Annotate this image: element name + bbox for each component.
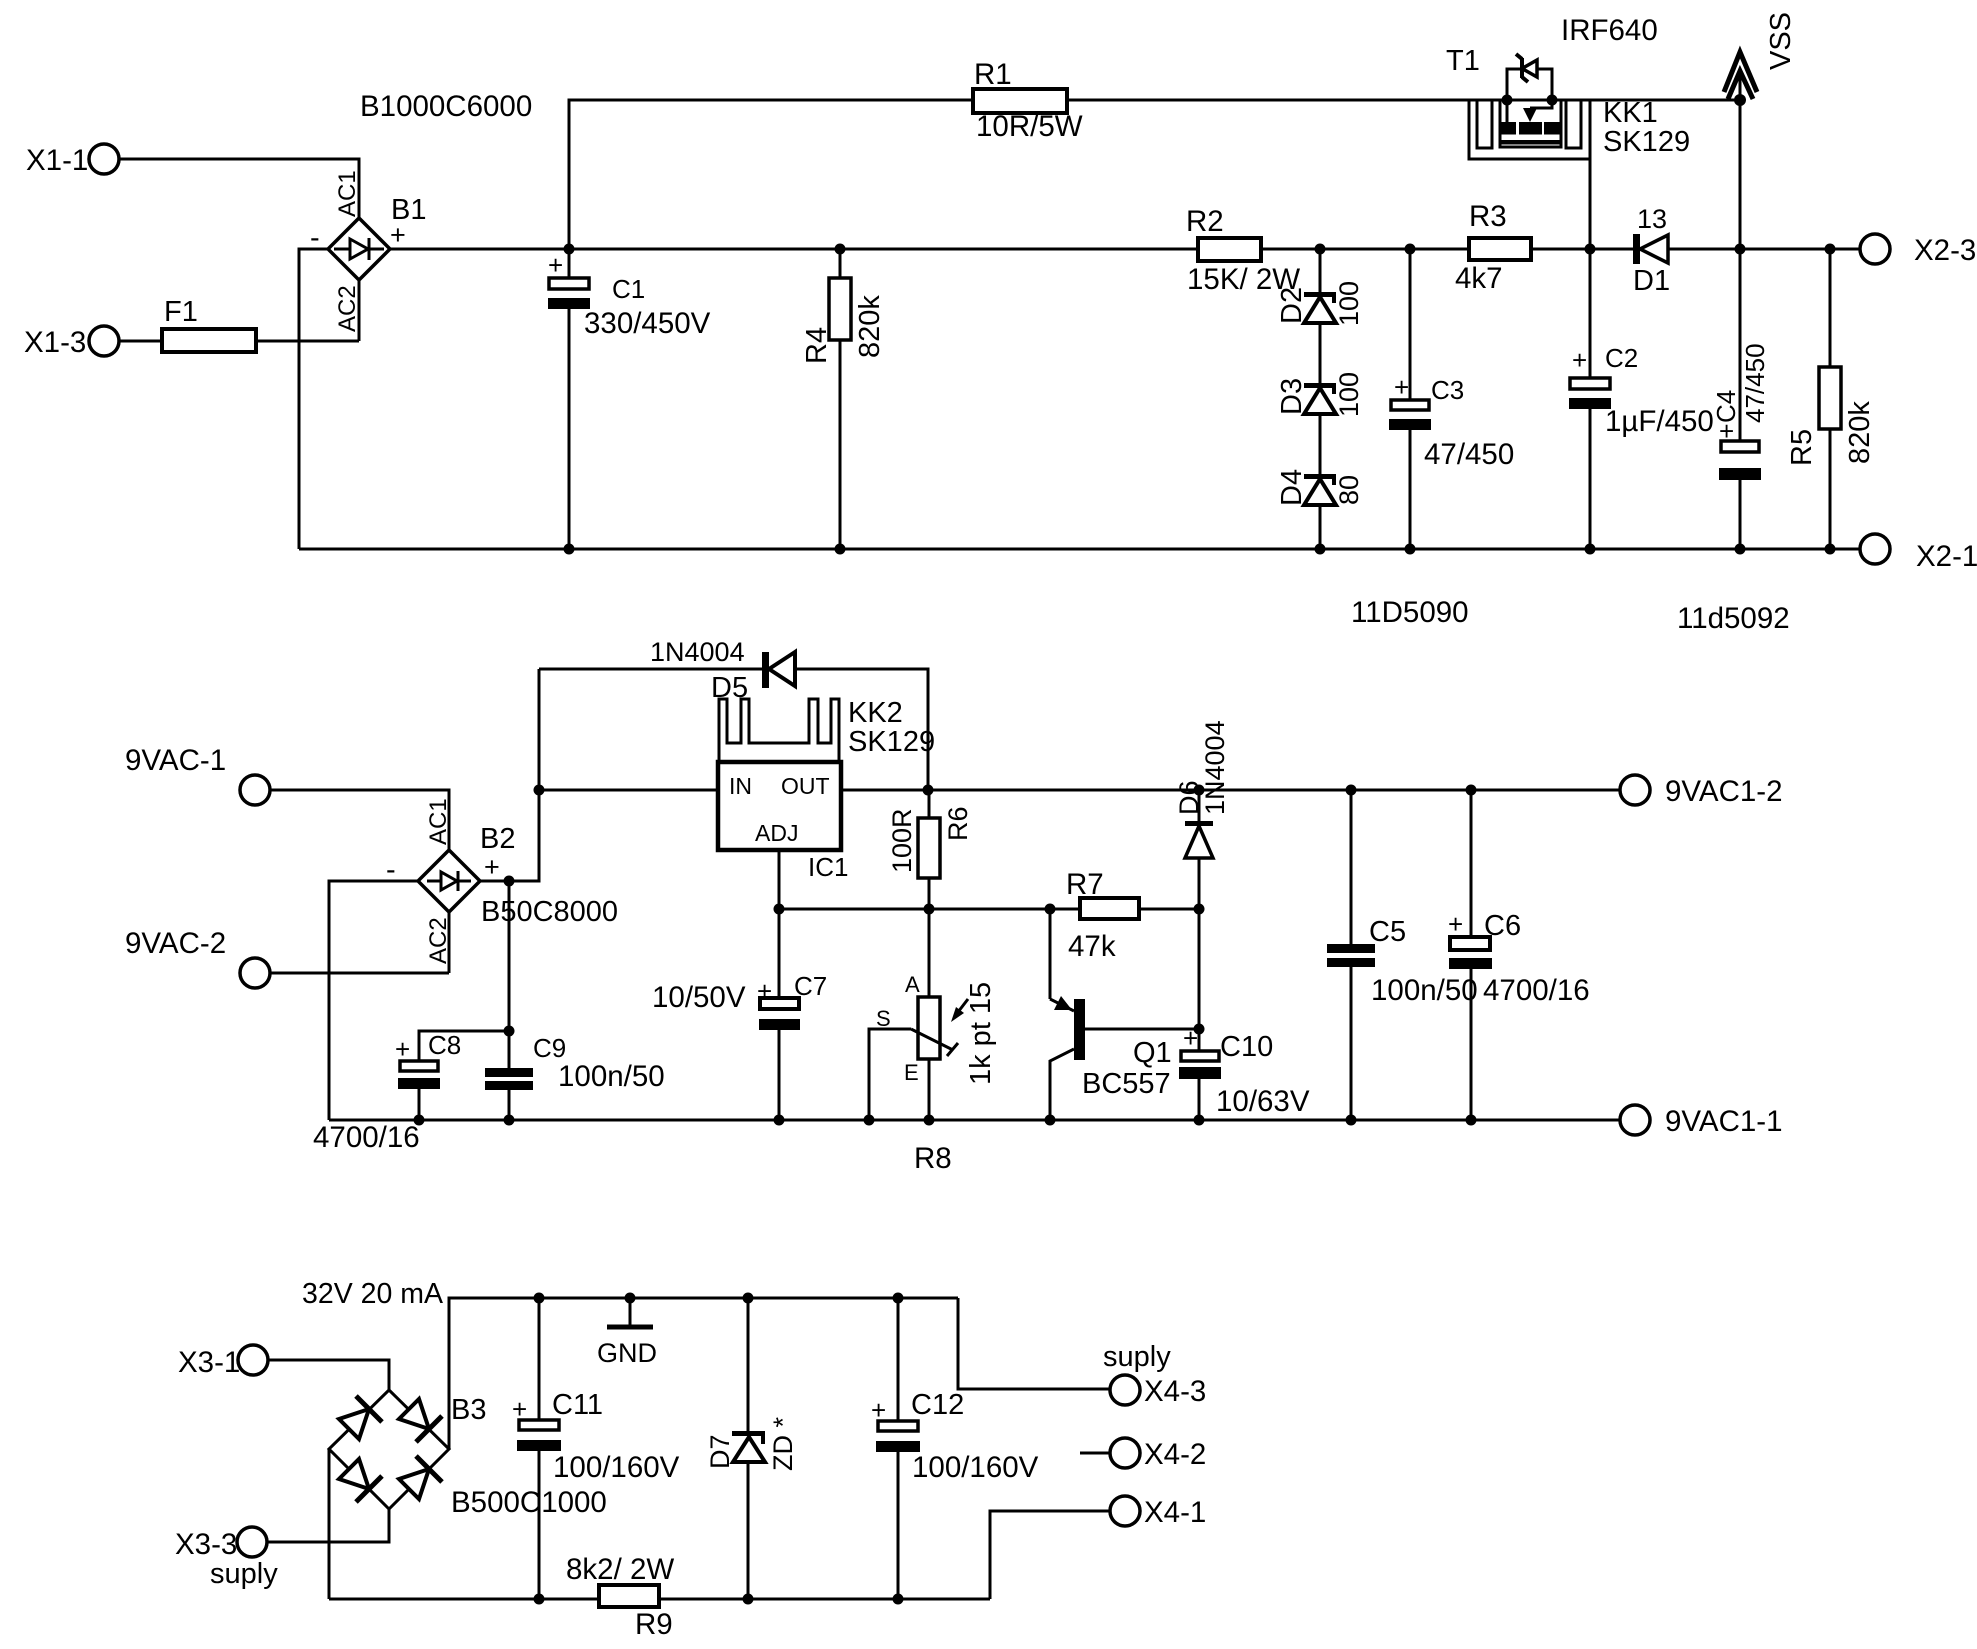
wire B2 plus down to C8 C9 xyxy=(508,881,511,1068)
terminal X1-3 xyxy=(24,326,119,359)
terminal X1-1 xyxy=(26,144,119,177)
svg-text:B3: B3 xyxy=(451,1394,486,1426)
capacitor C12 xyxy=(871,1298,1039,1605)
svg-text:X1-1: X1-1 xyxy=(26,144,88,177)
wire top rail xyxy=(569,100,1741,249)
wire bridge plus up to D5 rail xyxy=(480,669,539,881)
transistor T1 IRF640 xyxy=(1446,14,1658,145)
terminal X4-2 xyxy=(1080,1438,1206,1471)
wire X3-1 to bridge B3 xyxy=(268,1360,389,1390)
svg-text:AC2: AC2 xyxy=(334,285,361,332)
wire branch to C8 xyxy=(419,1031,509,1061)
svg-text:+: + xyxy=(548,250,563,280)
svg-text:11d5092: 11d5092 xyxy=(1677,602,1790,635)
capacitor C3 xyxy=(1389,249,1514,555)
resistor R2 xyxy=(1186,205,1300,296)
svg-text:C8: C8 xyxy=(428,1030,461,1060)
node junction C1 top xyxy=(564,244,575,255)
resistor R3 xyxy=(1455,200,1531,295)
svg-text:C12: C12 xyxy=(911,1389,964,1421)
svg-text:SK129: SK129 xyxy=(1603,126,1690,158)
capacitor C2 xyxy=(1569,249,1714,555)
transistor Q1 BC557 xyxy=(1045,909,1205,1126)
node junction B2 plus xyxy=(504,876,515,887)
wire 9VAC-2 to bridge B2 AC2 xyxy=(270,912,449,973)
zener diode D7 xyxy=(705,1298,798,1605)
svg-text:100n/50: 100n/50 xyxy=(1371,974,1478,1007)
svg-text:ZD *: ZD * xyxy=(768,1417,798,1471)
wire B3 plus up to top rail xyxy=(449,1298,958,1449)
node junction ADJ xyxy=(774,904,785,915)
svg-text:820k: 820k xyxy=(1844,401,1876,464)
svg-text:9VAC1-2: 9VAC1-2 xyxy=(1665,775,1783,808)
svg-text:330/450V: 330/450V xyxy=(584,307,711,340)
wire bottom bus xyxy=(299,548,1860,551)
wire VSS line down through bus to C4 xyxy=(1739,100,1742,441)
terminal X4-1 xyxy=(1110,1496,1206,1529)
regulator IC1 xyxy=(718,762,848,882)
svg-text:AC2: AC2 xyxy=(425,917,452,964)
terminal 9VAC-1 xyxy=(125,744,270,805)
svg-text:KK1: KK1 xyxy=(1603,97,1658,129)
capacitor C8 xyxy=(313,1030,461,1154)
capacitor C1 xyxy=(548,249,711,549)
svg-text:100R: 100R xyxy=(887,808,917,873)
svg-text:1µF/450: 1µF/450 xyxy=(1605,405,1714,438)
svg-text:11D5090: 11D5090 xyxy=(1351,596,1469,629)
svg-text:10/50V: 10/50V xyxy=(652,981,746,1014)
resistor R1 xyxy=(973,58,1083,143)
node junction C11 top xyxy=(534,1293,545,1304)
wire fuse to bridge AC2 xyxy=(256,280,359,341)
svg-text:+: + xyxy=(1183,1023,1198,1053)
svg-text:9VAC-2: 9VAC-2 xyxy=(125,927,226,960)
svg-text:10/63V: 10/63V xyxy=(1216,1085,1310,1118)
svg-text:AC1: AC1 xyxy=(425,798,452,845)
svg-text:D3: D3 xyxy=(1276,378,1308,415)
svg-text:Q1: Q1 xyxy=(1133,1037,1172,1069)
svg-text:GND: GND xyxy=(597,1338,657,1368)
bridge rectifier B3 xyxy=(329,1390,607,1519)
node junction C12 top xyxy=(893,1293,904,1304)
svg-text:820k: 820k xyxy=(854,295,886,358)
zener diode D3 xyxy=(1276,323,1364,417)
svg-text:+: + xyxy=(484,852,500,882)
svg-text:C2: C2 xyxy=(1605,343,1638,373)
svg-text:suply: suply xyxy=(210,1558,278,1590)
svg-text:47/450: 47/450 xyxy=(1424,438,1514,471)
heatsink KK1 xyxy=(1469,97,1690,159)
node junction D4 bottom xyxy=(1315,544,1326,555)
capacitor C7 xyxy=(652,909,827,1126)
svg-text:100/160V: 100/160V xyxy=(912,1451,1039,1484)
wire bridge minus down to bottom rail xyxy=(329,881,418,1120)
svg-text:BC557: BC557 xyxy=(1082,1068,1171,1100)
svg-text:47/450: 47/450 xyxy=(1740,343,1770,423)
terminal X3-3 xyxy=(175,1527,278,1590)
svg-text:R2: R2 xyxy=(1186,205,1224,238)
zener diode D2 xyxy=(1276,249,1364,326)
fuse F1 xyxy=(162,296,256,352)
ground GND xyxy=(597,1293,657,1369)
wire X1-1 to bridge AC1 xyxy=(119,159,359,218)
bridge rectifier B1 xyxy=(310,90,532,332)
svg-text:+: + xyxy=(1572,345,1587,375)
wire IC1 ADJ down xyxy=(778,850,781,909)
svg-text:+: + xyxy=(390,220,406,250)
resistor R5 xyxy=(1786,249,1876,555)
svg-text:C9: C9 xyxy=(533,1033,566,1063)
svg-text:9VAC1-1: 9VAC1-1 xyxy=(1665,1105,1783,1138)
capacitor C5 xyxy=(1327,785,1478,1126)
svg-text:E: E xyxy=(904,1060,919,1085)
svg-text:47k: 47k xyxy=(1068,930,1116,963)
svg-text:8k2/ 2W: 8k2/ 2W xyxy=(566,1553,674,1586)
node junction C3 top xyxy=(1405,244,1416,255)
wire OUT rail to terminal xyxy=(841,789,1620,792)
terminal 9VAC1-2 xyxy=(1620,775,1783,808)
potentiometer R8 xyxy=(864,909,998,1175)
wire bridge plus along main bus xyxy=(390,248,1198,251)
svg-text:1N4004: 1N4004 xyxy=(1200,720,1230,815)
wire bottom rail middle xyxy=(329,1119,1620,1122)
svg-text:AC1: AC1 xyxy=(334,170,361,217)
svg-text:X2-3: X2-3 xyxy=(1914,234,1976,267)
wire B3 minus down to bottom rail xyxy=(328,1449,331,1599)
terminal 9VAC-2 xyxy=(125,927,270,988)
node junction D7 top xyxy=(743,1293,754,1304)
diode D1 xyxy=(1633,204,1860,297)
svg-text:1k pt 15: 1k pt 15 xyxy=(965,982,997,1085)
wire bottom rail xyxy=(329,1598,990,1601)
svg-text:4700/16: 4700/16 xyxy=(1483,974,1590,1007)
svg-text:R9: R9 xyxy=(635,1608,673,1641)
svg-text:+: + xyxy=(1448,909,1463,939)
resistor R9 xyxy=(566,1553,674,1641)
resistor R7 xyxy=(1066,868,1205,963)
svg-text:IRF640: IRF640 xyxy=(1561,14,1658,47)
node junction D2 top xyxy=(1315,244,1326,255)
capacitor C6 xyxy=(1448,785,1590,1126)
resistor R4 xyxy=(801,244,886,555)
diode D6 1N4004 xyxy=(1174,720,1230,1051)
svg-text:SK129: SK129 xyxy=(848,726,935,758)
svg-text:X1-3: X1-3 xyxy=(24,326,86,359)
wire 9VAC-1 to bridge B2 AC1 xyxy=(270,790,449,850)
bridge rectifier B2 xyxy=(386,798,618,964)
svg-text:C1: C1 xyxy=(612,274,645,304)
svg-text:R6: R6 xyxy=(943,806,973,841)
node junction D6 top xyxy=(1194,785,1205,796)
svg-text:B50C8000: B50C8000 xyxy=(481,896,618,928)
svg-text:R5: R5 xyxy=(1786,429,1818,466)
svg-text:B500C1000: B500C1000 xyxy=(451,1486,607,1519)
svg-text:C5: C5 xyxy=(1369,916,1406,948)
svg-text:R1: R1 xyxy=(974,58,1012,91)
svg-text:X3-1: X3-1 xyxy=(178,1346,240,1379)
node junction mid rail at 539 xyxy=(534,785,545,796)
terminal X4-3 xyxy=(1103,1341,1206,1408)
svg-text:R4: R4 xyxy=(801,327,833,364)
svg-text:S: S xyxy=(876,1006,891,1031)
svg-text:A: A xyxy=(905,972,920,997)
wire X3-3 to bridge B3 xyxy=(267,1509,389,1542)
diode D5 1N4004 xyxy=(539,637,928,790)
wire X1-3 to fuse xyxy=(119,340,162,343)
node junction C8 branch xyxy=(504,1026,515,1037)
svg-text:10R/5W: 10R/5W xyxy=(976,110,1083,143)
capacitor C4 xyxy=(1711,343,1770,554)
svg-text:F1: F1 xyxy=(164,296,198,328)
svg-text:R3: R3 xyxy=(1469,200,1507,233)
wire mid rail to IC1 IN xyxy=(539,789,718,792)
svg-text:100/160V: 100/160V xyxy=(553,1451,680,1484)
svg-text:X4-1: X4-1 xyxy=(1144,1496,1206,1529)
wire top rail corner to X4-3 xyxy=(958,1298,1110,1389)
svg-text:R8: R8 xyxy=(914,1142,952,1175)
svg-text:100: 100 xyxy=(1334,281,1364,326)
terminal X2-1 xyxy=(1860,534,1977,573)
node junction R7 left xyxy=(1045,904,1056,915)
wire bus R2 to R3 xyxy=(1261,248,1469,251)
terminal X3-1 xyxy=(178,1345,268,1379)
wire ADJ rail xyxy=(779,908,1080,911)
terminal X2-3 xyxy=(1860,234,1976,267)
svg-text:80: 80 xyxy=(1334,475,1364,505)
svg-text:C3: C3 xyxy=(1431,375,1464,405)
wire T1 drain down to bus xyxy=(1589,159,1592,249)
node junction C1 bottom xyxy=(564,544,575,555)
svg-text:C11: C11 xyxy=(552,1389,603,1421)
svg-text:B2: B2 xyxy=(480,823,515,855)
svg-text:4k7: 4k7 xyxy=(1455,262,1503,295)
capacitor C10 xyxy=(1179,1023,1310,1126)
svg-text:B1000C6000: B1000C6000 xyxy=(360,90,532,123)
svg-text:VSS: VSS xyxy=(1765,12,1797,70)
svg-text:9VAC-1: 9VAC-1 xyxy=(125,744,226,777)
svg-text:T1: T1 xyxy=(1446,45,1480,77)
heatsink KK2 xyxy=(719,697,935,762)
svg-text:13: 13 xyxy=(1637,204,1667,234)
node junction OUT rail xyxy=(923,785,934,796)
svg-text:X4-3: X4-3 xyxy=(1144,1375,1206,1408)
node junction C2 top xyxy=(1585,244,1596,255)
wire bottom rail corner to X4-1 xyxy=(990,1511,1110,1599)
svg-text:4700/16: 4700/16 xyxy=(313,1121,420,1154)
svg-text:D1: D1 xyxy=(1633,265,1670,297)
svg-text:+: + xyxy=(1394,372,1409,402)
svg-text:100n/50: 100n/50 xyxy=(558,1060,665,1093)
resistor R6 xyxy=(887,790,973,915)
svg-text:IN: IN xyxy=(729,773,752,799)
svg-text:KK2: KK2 xyxy=(848,697,903,729)
svg-text:D4: D4 xyxy=(1276,469,1308,506)
capacitor C11 xyxy=(512,1298,680,1605)
power VSS xyxy=(1724,12,1797,106)
svg-text:X4-2: X4-2 xyxy=(1144,1438,1206,1471)
wire bridge minus to bottom bus xyxy=(299,249,328,549)
svg-text:ADJ: ADJ xyxy=(755,820,798,846)
svg-text:OUT: OUT xyxy=(781,773,830,799)
terminal 9VAC1-1 xyxy=(1620,1105,1783,1138)
svg-text:1N4004: 1N4004 xyxy=(650,637,745,667)
wire bus R3 to D1 xyxy=(1531,248,1633,251)
svg-text:IC1: IC1 xyxy=(808,852,848,882)
node junction C4 top xyxy=(1735,244,1746,255)
svg-text:C10: C10 xyxy=(1220,1031,1273,1063)
svg-text:D2: D2 xyxy=(1276,287,1308,324)
svg-text:100: 100 xyxy=(1334,372,1364,417)
svg-text:suply: suply xyxy=(1103,1341,1171,1373)
capacitor C9 xyxy=(485,1033,665,1126)
node junction R5 top xyxy=(1825,244,1836,255)
svg-text:X3-3: X3-3 xyxy=(175,1528,237,1561)
svg-text:32V 20 mA: 32V 20 mA xyxy=(302,1278,443,1310)
zener diode D4 xyxy=(1276,414,1364,549)
svg-text:X2-1: X2-1 xyxy=(1916,540,1977,573)
